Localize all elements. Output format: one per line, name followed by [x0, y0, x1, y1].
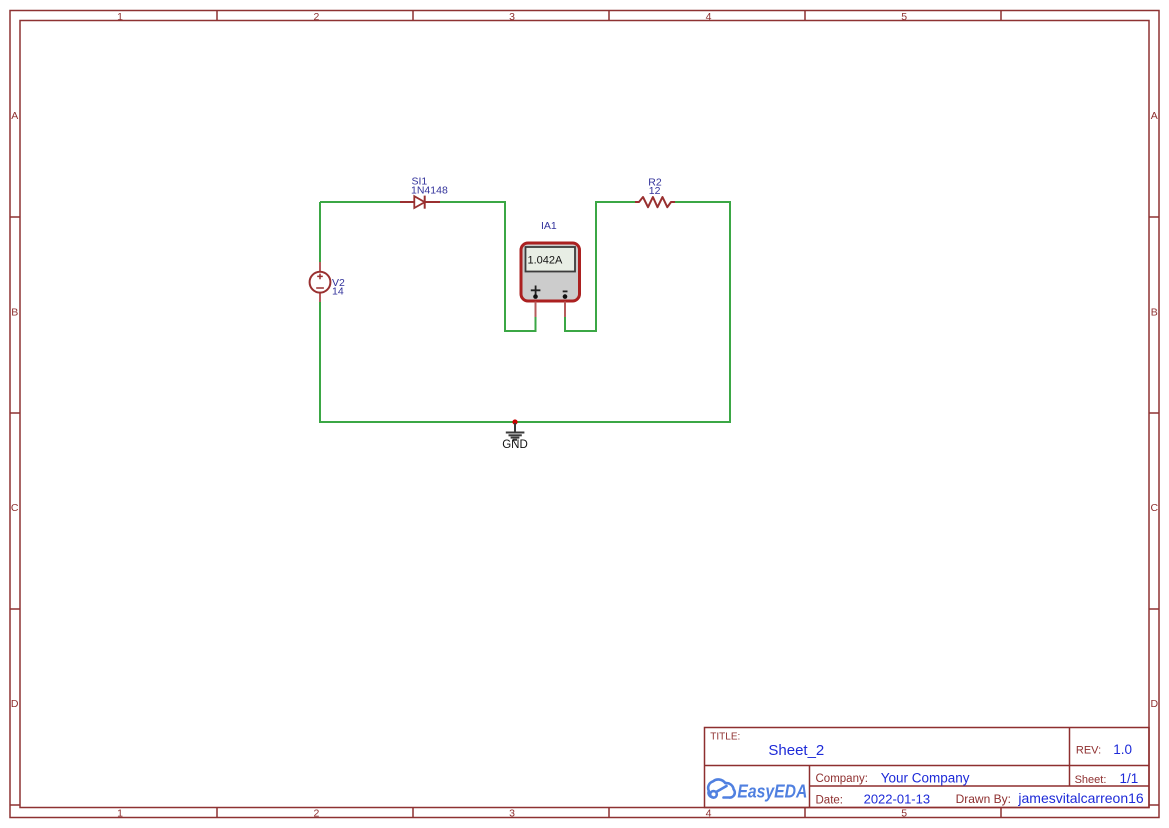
svg-text:D: D [11, 698, 19, 710]
svg-text:D: D [1151, 698, 1159, 710]
svg-text:Company:: Company: [816, 773, 868, 785]
svg-text:B: B [1151, 306, 1158, 318]
svg-text:3: 3 [509, 11, 515, 23]
svg-text:REV:: REV: [1076, 745, 1101, 757]
svg-text:2: 2 [313, 11, 319, 23]
svg-text:3: 3 [509, 807, 515, 819]
svg-text:2: 2 [313, 807, 319, 819]
svg-text:14: 14 [332, 285, 344, 297]
svg-text:C: C [1151, 502, 1159, 514]
svg-text:Your Company: Your Company [881, 770, 970, 785]
svg-text:Drawn By:: Drawn By: [956, 792, 1011, 806]
svg-text:1N4148: 1N4148 [411, 184, 448, 196]
svg-text:1: 1 [117, 11, 123, 23]
svg-text:jamesvitalcarreon16: jamesvitalcarreon16 [1017, 790, 1143, 806]
svg-text:Sheet:: Sheet: [1075, 774, 1107, 786]
svg-text:A: A [11, 110, 18, 122]
svg-text:1: 1 [117, 807, 123, 819]
svg-text:1/1: 1/1 [1120, 771, 1139, 786]
svg-text:5: 5 [901, 11, 907, 23]
svg-text:4: 4 [706, 807, 712, 819]
svg-text:EasyEDA: EasyEDA [737, 782, 807, 802]
svg-text:C: C [11, 502, 19, 514]
svg-text:TITLE:: TITLE: [710, 732, 740, 743]
svg-text:IA1: IA1 [541, 220, 557, 232]
svg-text:Sheet_2: Sheet_2 [768, 742, 824, 759]
svg-text:A: A [1151, 110, 1158, 122]
svg-text:12: 12 [649, 185, 661, 197]
svg-text:4: 4 [706, 11, 712, 23]
svg-text:1.042A: 1.042A [528, 255, 564, 267]
svg-text:1.0: 1.0 [1113, 742, 1132, 757]
svg-text:5: 5 [901, 807, 907, 819]
svg-text:B: B [11, 306, 18, 318]
svg-text:GND: GND [502, 439, 528, 451]
svg-text:2022-01-13: 2022-01-13 [864, 791, 931, 806]
svg-text:Date:: Date: [816, 794, 844, 806]
